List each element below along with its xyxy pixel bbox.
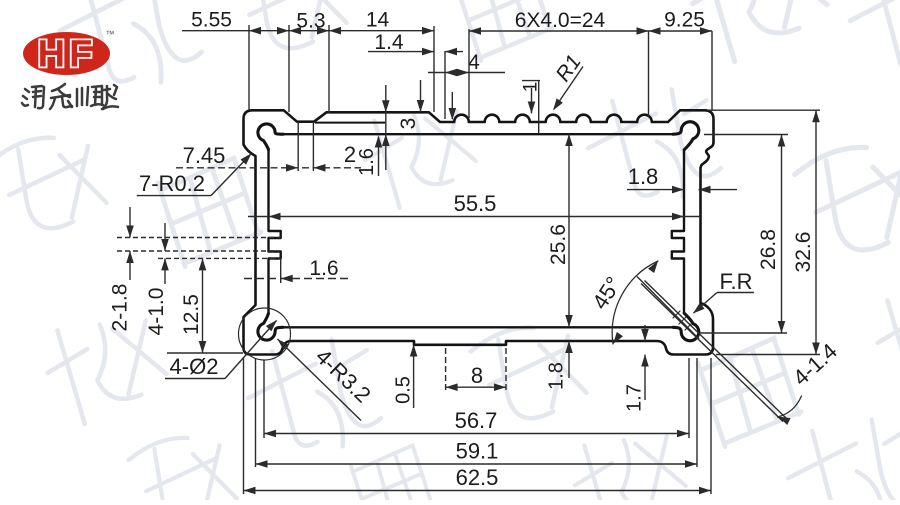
ext line x445: [444, 51, 446, 119]
profile outer contour: [244, 110, 714, 354]
top wall slot line: [315, 122, 385, 124]
bottom-right screw boss: [673, 313, 699, 341]
ext line x469: [468, 29, 470, 118]
svg-text:4: 4: [468, 51, 480, 74]
svg-text:4-1.0: 4-1.0: [145, 288, 168, 336]
svg-text:2-1.8: 2-1.8: [109, 284, 132, 332]
dim 1.8 bottom wall: [568, 341, 570, 378]
bottom-left boss reference circle: [239, 308, 291, 360]
svg-text:9.25: 9.25: [664, 8, 705, 31]
dim 56.7: [264, 433, 689, 435]
profile inner top surface: [282, 133, 674, 135]
svg-text:3: 3: [397, 118, 420, 130]
top-left screw boss: [258, 124, 283, 150]
ext line x329: [328, 25, 330, 113]
ext line x712: [711, 31, 713, 110]
profile inner bottom surface: [282, 326, 674, 328]
dim 25.6 inner height: [568, 134, 570, 327]
dim 3 (wall height): [385, 85, 387, 170]
dim 1.6 (slot wall): [378, 137, 380, 176]
top-right screw boss: [673, 122, 699, 150]
top dimension chain lines: [182, 30, 434, 32]
ext line x648: [648, 31, 650, 117]
svg-text:1: 1: [521, 82, 542, 93]
dim 2-1.8: [129, 207, 131, 238]
svg-text:1.7: 1.7: [624, 384, 646, 412]
svg-text:1.8: 1.8: [628, 164, 659, 189]
ext line x434: [433, 26, 435, 112]
svg-text:1.4: 1.4: [374, 31, 404, 54]
right wall inner face with ribs: [672, 150, 684, 313]
svg-text:25.6: 25.6: [547, 224, 570, 265]
dim 4-1.0: [164, 223, 166, 251]
svg-text:62.5: 62.5: [456, 465, 499, 490]
left wall inner face with ribs: [269, 149, 281, 313]
svg-text:7-R0.2: 7-R0.2: [139, 171, 205, 196]
svg-text:7.45: 7.45: [183, 143, 226, 168]
svg-text:12.5: 12.5: [180, 294, 203, 335]
leader to bump base: [451, 92, 453, 119]
svg-text:32.6: 32.6: [792, 232, 815, 273]
svg-text:R1: R1: [552, 51, 586, 86]
ext line x298: [297, 122, 299, 171]
ext line x289: [288, 25, 290, 112]
company logo red ellipse HF: [23, 32, 110, 75]
ext line y354: [716, 354, 820, 356]
bottom-left screw boss: [258, 314, 283, 341]
rib extension lines: [117, 237, 281, 239]
dim 45 degrees: [612, 261, 658, 344]
svg-text:45°: 45°: [587, 272, 626, 314]
svg-text:26.8: 26.8: [757, 229, 780, 270]
svg-text:1.6: 1.6: [356, 148, 378, 176]
svg-text:56.7: 56.7: [455, 408, 498, 433]
dim 0.5 recess depth: [413, 345, 415, 409]
leader for 1.4: [420, 80, 422, 112]
svg-text:14: 14: [366, 9, 390, 32]
ext line x313: [312, 122, 314, 171]
ext line y333: [700, 332, 787, 334]
dim 59.1: [256, 463, 698, 465]
company name characters: [22, 84, 118, 109]
ext line y110: [707, 109, 820, 111]
svg-text:F.R: F.R: [720, 269, 753, 294]
ext line x249: [248, 25, 250, 110]
dim 1 (bump height): [522, 80, 540, 82]
svg-text:1.6: 1.6: [309, 257, 338, 280]
svg-text:HF: HF: [38, 34, 97, 76]
svg-text:5.55: 5.55: [191, 9, 232, 32]
svg-text:55.5: 55.5: [454, 191, 497, 216]
label 4-R3.2 with leader: [278, 339, 362, 421]
svg-text:1.8: 1.8: [546, 362, 568, 390]
svg-text:0.5: 0.5: [393, 376, 415, 404]
ext line y134: [704, 134, 788, 136]
bottom dimension ext lines: [243, 358, 245, 494]
dim 62.5: [244, 490, 712, 492]
dim 1.7 boss step: [644, 325, 646, 341]
chamfer dim lines 4-1.4: [641, 284, 783, 422]
svg-text:59.1: 59.1: [456, 439, 499, 464]
svg-text:4-Ø2: 4-Ø2: [170, 354, 219, 379]
svg-text:™: ™: [106, 29, 115, 39]
svg-text:8: 8: [471, 363, 483, 388]
svg-text:2: 2: [344, 142, 356, 167]
svg-text:6X4.0=24: 6X4.0=24: [515, 9, 606, 32]
dim 8 recess: [445, 348, 447, 392]
dim 12.5: [202, 258, 204, 353]
